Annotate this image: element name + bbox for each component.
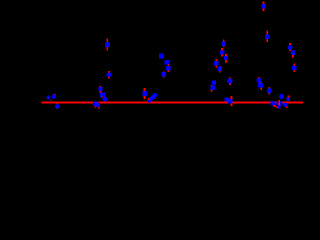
data point 5 error bar [221,48,223,57]
data point 2 marker [265,34,270,38]
data point 7 marker [214,61,218,65]
data point 18 marker [100,93,105,98]
data point 27 marker [279,94,284,99]
data point 12 marker [159,54,164,59]
data point 25 error bar [260,82,262,90]
data point 15 marker [162,72,167,77]
data point 29 cap (dark, below C1) [50,100,51,101]
data point 11 error bar [293,64,295,73]
data point 9 marker [288,45,293,50]
data point 44 error bar cap [276,107,278,109]
data point 20 error bar [144,88,146,99]
data point 7 error bar [215,59,217,68]
data point 35 marker [149,97,153,101]
data point 26 error bar [268,87,270,95]
on-line cluster: data point 40 marker [271,101,275,105]
data point 5 marker [220,50,224,54]
data point 38 marker [225,97,229,101]
data point 32 marker [93,101,97,105]
data point 45 error bar cap left [283,103,285,105]
data point 44 marker (below line) [277,106,280,109]
model line (red horizontal) [42,102,303,104]
data point 45 marker [284,103,288,107]
data point 24 marker [256,78,261,83]
data point 29 marker (circle left of line start) [47,96,51,100]
data point 30 cap (dark, above C2) [54,94,56,95]
data point 30 marker [52,95,56,99]
data point 20 marker [142,91,147,96]
data point 35 error bar [148,98,150,100]
data point 23 marker [227,78,232,83]
data point 17 marker [98,87,102,91]
data point 25 marker [258,83,263,88]
data point 16 marker [107,72,112,77]
data point 34 marker (diagonal chain) [147,98,151,102]
data point 1 marker [261,4,266,9]
data point 11 marker [292,65,296,69]
data point 14 error bar [167,65,169,72]
data point 18 error bar cap (below E2) [102,96,104,97]
data point 22 marker [211,86,215,90]
data point 13 marker [165,60,170,65]
data point 17 error bar [100,86,102,93]
data point 31 error bar [56,104,58,109]
data point 43 marker [279,102,283,106]
data point 9 error bar [289,43,291,51]
data point 33 error bar [98,103,100,109]
data point 8 error bar [219,66,221,73]
data point 19 marker [103,97,108,102]
data point 39 error bar [231,96,233,106]
data point 41 marker [272,103,276,107]
data point 45 error bar cap below [286,107,288,108]
data point 42 error bar (tall, drawn over markers) [278,100,280,107]
data point 36 marker [151,95,155,99]
data point 39 marker [228,99,232,103]
data point 28 marker [287,97,291,101]
data point 1 error bar [263,2,265,12]
data point 37 marker [153,93,157,97]
data point 26 marker [267,89,271,93]
data point 16 error bar [108,71,110,78]
data point 8 marker [218,67,222,71]
data point 22 error bar [211,85,213,91]
data point 28 error bar [288,96,290,101]
data point 42 marker [276,101,280,105]
data point 15 error bar [163,71,165,77]
data point 31 marker [55,104,59,108]
data point 24 error bar [258,77,260,84]
data point 21 marker [212,81,216,85]
data point 14 marker [166,66,171,71]
data point 6 marker [224,56,228,60]
data point 41 error bar cap [274,105,276,107]
data point 4 marker [222,42,226,46]
data point 23 error bar [229,78,231,85]
data point 32 error bar [95,102,97,108]
data point 4 error bar [223,40,225,48]
data point 6 error bar [225,54,227,62]
data point 2 error bar [266,30,268,42]
data point 3 marker [105,42,110,47]
data point 33 marker [96,103,100,107]
data point 10 error bar [292,51,294,58]
data point 3 error bar [106,39,108,51]
data point 10 marker [291,51,295,55]
